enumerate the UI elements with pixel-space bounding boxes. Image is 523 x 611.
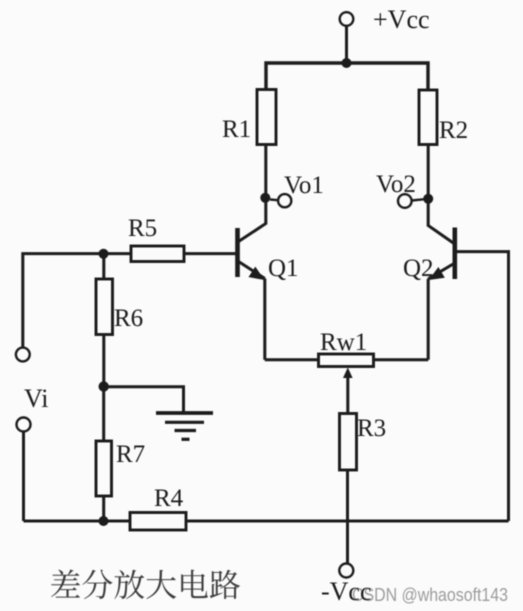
junction ground node (99, 381, 109, 391)
wire to ground (104, 387, 184, 412)
resistor R1 (257, 90, 276, 145)
junction top rail node (342, 58, 352, 68)
wire Q1 base lead (184, 252, 236, 255)
wire Vo1 stub (270, 198, 278, 201)
junction Vo1 node (260, 193, 270, 203)
wire +Vcc stub (345, 26, 348, 63)
resistor R5 (131, 246, 184, 262)
wire Q1 emitter down (263, 279, 266, 360)
ground (156, 413, 213, 439)
transistor Q2 emitter arrow (429, 267, 445, 280)
wire bottom rail left (24, 520, 131, 523)
transistor Q1 collector (239, 198, 266, 242)
terminal input lower Vi (17, 418, 31, 432)
wire emitter rail right (374, 358, 429, 361)
svg-text:CSDN @whaosoft143: CSDN @whaosoft143 (352, 584, 508, 605)
terminal input upper (16, 348, 30, 362)
resistor R4 (130, 513, 186, 531)
terminal -Vcc (339, 564, 353, 578)
wire wiper to R3 (346, 412, 349, 414)
svg-text:R3: R3 (357, 415, 386, 442)
wire bottom rail right (186, 520, 509, 523)
wire R1 to Vo1 node (264, 145, 267, 198)
wire ground node to R7 (102, 387, 105, 441)
wire Vo2 stub (412, 199, 424, 200)
svg-text:Vo2: Vo2 (376, 171, 416, 198)
svg-text:R5: R5 (128, 215, 157, 242)
wire R6 to ground node (102, 335, 105, 387)
resistor R3 (340, 414, 357, 471)
svg-text:Vo1: Vo1 (284, 172, 324, 199)
wire emitter rail left (265, 358, 319, 361)
wire R2 to Vo2 node (427, 145, 430, 199)
caption 差分放大电路 (51, 570, 240, 600)
wire R7 to bottom rail (102, 496, 105, 521)
junction Vo2 node (423, 194, 433, 204)
svg-text:Rw1: Rw1 (320, 329, 367, 356)
wire R6 branch (102, 254, 105, 279)
junction node left (99, 249, 109, 259)
resistor R6 (96, 279, 113, 335)
transistor Q1 emitter (239, 262, 265, 279)
wire top rail (266, 63, 428, 90)
potentiometer Rw1 (319, 354, 374, 367)
svg-text:Q1: Q1 (268, 255, 299, 282)
svg-text:R1: R1 (222, 116, 251, 143)
potentiometer wiper arrow (346, 375, 349, 412)
transistor Q1 base bar (235, 228, 240, 277)
transistor Q1 emitter arrow (249, 267, 265, 280)
wire R3 to -Vcc (346, 470, 349, 563)
svg-text:R2: R2 (439, 117, 468, 144)
transistor Q2 base bar (452, 228, 457, 280)
terminal Vo1 (278, 194, 291, 207)
transistor Q2 emitter (428, 264, 454, 279)
wire Q2 emitter down (427, 279, 430, 360)
resistor R2 (419, 90, 437, 145)
resistor R7 (96, 441, 112, 496)
svg-text:R6: R6 (114, 305, 143, 332)
svg-text:-Vcc: -Vcc (321, 577, 372, 606)
wire right side (456, 252, 509, 521)
terminal +Vcc (340, 12, 354, 26)
svg-text:Vi: Vi (24, 384, 48, 413)
svg-text:Q2: Q2 (403, 255, 434, 282)
transistor Q2 collector (428, 199, 454, 244)
terminal Vo2 (398, 194, 412, 208)
wire Vi to bottom rail (22, 432, 25, 521)
svg-text:+Vcc: +Vcc (373, 5, 430, 34)
svg-text:R7: R7 (116, 441, 145, 468)
wire R5 to input (23, 254, 131, 348)
svg-text:R4: R4 (154, 485, 184, 512)
junction bottom node (99, 516, 109, 526)
